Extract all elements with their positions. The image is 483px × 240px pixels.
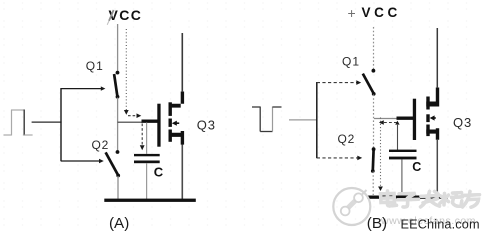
capacitor bottom plate (B) [389,157,417,160]
input pulse symbol (positive pulse) [4,110,33,136]
MOSFET Q3 channel bottom segment [169,130,172,142]
ground bar (A) [104,199,196,202]
input branch vertical wire [60,88,62,161]
VCC supply wire upper segment [117,24,119,72]
MOSFET Q3 channel middle segment (B) [426,114,429,122]
switch Q1 top terminal dot (B) [372,69,376,73]
drive arrow to Q2 [61,159,104,163]
supply dotted wire middle [373,95,375,149]
power label +VCC [348,5,401,21]
svg-text:+: + [348,5,356,21]
switch Q1 bottom terminal dot [116,95,120,99]
source wire down to ground [181,145,183,200]
wire Q2 to ground dotted (B) [372,172,374,196]
dashed arrow down into capacitor [140,124,145,151]
dashed drive arrow to Q1 (B) [317,80,361,85]
MOSFET Q3 gate bar (B) [413,99,416,140]
capacitor top plate (B) [389,150,417,152]
switch Q2 blade closed (B) [371,150,375,171]
svg-text:EEChina.com: EEChina.com [401,217,480,231]
gate wire thick [142,119,159,122]
watermark char dian [381,191,397,206]
capacitor top lead [146,123,148,155]
drive arrow to Q1 [61,86,105,90]
input wire [32,121,62,123]
switch Q1 blade open (B) [363,74,374,94]
dotted current-path line from VCC [125,29,127,110]
MOSFET Q3 drain connection [169,92,185,108]
svg-text:(B): (B) [367,215,387,232]
input wire (B) [289,119,317,121]
switch Q1 blade [114,74,117,96]
svg-text:Q2: Q2 [92,138,110,152]
discharge path dotted vertical with down arrow (B) [378,118,383,192]
MOSFET Q3 channel bottom segment (B) [426,125,429,137]
capacitor bottom plate [134,161,160,164]
supply dotted wire upper [373,27,375,70]
dashed arrow right (charge path) [128,113,141,118]
ground bar (B) [367,196,448,199]
MOSFET Q3 substrate arrow [172,121,179,126]
arrow mark on V of VCC [107,10,113,25]
watermark char shao [440,193,463,207]
MOSFET Q3 channel top segment (B) [426,97,429,110]
capacitor bottom lead [146,163,148,199]
drain wire up (B) [436,28,438,88]
capacitor bottom lead (B) [401,160,403,197]
MOSFET Q3 source connection [169,131,185,145]
gate wire thick (B) [397,116,415,119]
watermark logo circle [333,188,370,225]
svg-text:(A): (A) [109,215,129,232]
watermark char zi [398,193,419,207]
switch Q2 bottom terminal dot [116,174,120,178]
svg-text:C: C [154,165,164,180]
switch Q2 top terminal dot [116,150,120,154]
MOSFET Q3 channel middle segment [169,119,172,127]
input branch vertical wire (B) [316,82,318,158]
watermark char fa [421,191,440,207]
MOSFET Q3 channel top segment [169,102,172,116]
dashed drive arrow to Q2 (B) [317,156,362,161]
drain wire up [181,33,183,92]
wire Q2 to ground [117,176,119,199]
discharge path up arrow from capacitor (B) [395,121,399,150]
switch Q2 blade (open) [106,152,119,175]
svg-text:VCC: VCC [362,5,401,20]
switch Q2 top terminal dot (B) [372,147,376,151]
source wire down (B) [436,140,438,196]
gate node wire thin (B) [374,118,397,120]
svg-text:VCC: VCC [109,7,143,23]
svg-text:Q3: Q3 [453,115,472,130]
svg-text:Q1: Q1 [86,59,104,73]
svg-text:Q3: Q3 [197,117,216,132]
switch Q1 bottom terminal dot (B) [372,92,376,96]
MOSFET Q3 source connection (B) [426,128,439,140]
MOSFET Q3 substrate arrow (B) [430,115,436,120]
supply wire between Q1 and Q2 [117,98,119,152]
MOSFET Q3 drain connection (B) [426,88,439,107]
input pulse symbol negative (B) [252,107,282,132]
MOSFET Q3 gate bar [157,104,160,147]
switch Q2 bottom terminal dot (B) [371,169,375,173]
svg-text:C: C [412,160,421,174]
capacitor top plate [134,154,160,156]
arrowhead down of dotted current path [124,110,129,115]
svg-text:Q1: Q1 [342,54,360,68]
switch Q1 top terminal dot [116,71,120,75]
watermark char you [463,191,480,207]
gate node wire thin [118,121,142,123]
discharge path dashed horizontal with left arrow (B) [379,120,398,125]
svg-text:Q2: Q2 [338,132,356,146]
